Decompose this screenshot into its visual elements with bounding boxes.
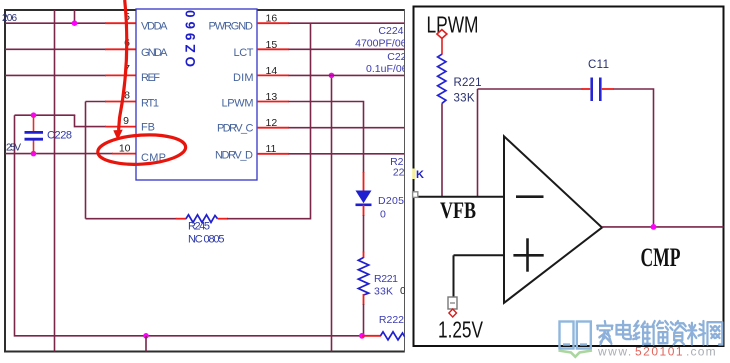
node C228 bottom dot (31, 151, 37, 157)
svg-text:C22: C22 (387, 51, 406, 63)
wire NDRV_D to border (289, 153, 405, 155)
pin 6 red stub (105, 48, 136, 50)
svg-text:206: 206 (2, 13, 17, 24)
svg-text:LPWM: LPWM (427, 12, 479, 38)
wire CMP output (602, 226, 724, 228)
wire FB upper branch horizontal (15, 114, 76, 116)
svg-text:33K: 33K (374, 286, 393, 298)
pin 16 red stub (257, 22, 289, 24)
resistor R222 zigzag (381, 332, 405, 340)
wire FB pin9 elbow (75, 115, 107, 126)
svg-text:LCT: LCT (234, 47, 254, 59)
pin 5 red stub (105, 22, 136, 24)
wire RT1 pin8 horizontal (86, 101, 107, 103)
diode D205 anode stub (363, 172, 365, 191)
wire VDDA pin5 horizontal (5, 22, 106, 24)
svg-text:R222: R222 (379, 314, 404, 326)
wire C11 to output elbow (614, 89, 654, 227)
svg-text:4700PF/06: 4700PF/06 (355, 38, 407, 50)
wire CMP pin10 horizontal (5, 153, 113, 155)
watermark chinese text jia (597, 321, 612, 344)
wire R221 to rail (363, 304, 365, 336)
resistor R221 right panel zigzag (438, 54, 446, 103)
svg-text:DIM: DIM (233, 72, 254, 84)
svg-text:22: 22 (393, 167, 405, 179)
svg-text:PWRGND: PWRGND (209, 21, 254, 33)
svg-text:0: 0 (380, 209, 386, 221)
watermark chinese text liao (688, 321, 705, 344)
svg-text:LPWM: LPWM (222, 98, 254, 110)
wire diode to R221 (363, 215, 365, 253)
wire GNDA pin6 horizontal (5, 48, 106, 50)
capacitor C228 legs (33, 115, 35, 153)
svg-text:VFB: VFB (440, 198, 476, 223)
watermark chinese text xiu (652, 321, 668, 344)
wire R245 row (86, 218, 177, 220)
resistor R245 right stub (218, 218, 229, 220)
svg-text:33K: 33K (454, 93, 475, 105)
svg-text:PDRV_C: PDRV_C (217, 123, 254, 135)
svg-text:R245: R245 (188, 221, 210, 233)
wire stub top to VDDA node (74, 10, 76, 23)
svg-text:GNDA: GNDA (141, 47, 168, 59)
svg-text:VDDA: VDDA (141, 21, 168, 33)
svg-text:10: 10 (119, 143, 131, 155)
port 1.25V red diamond (449, 309, 457, 317)
op-amp plus symbol (513, 238, 543, 271)
wire rail stub down (145, 336, 147, 352)
pin 14 red stub (257, 74, 289, 76)
port 1.25V box (448, 297, 457, 309)
watermark book base green (559, 351, 593, 357)
svg-text:D205: D205 (378, 195, 404, 207)
svg-text:520101: 520101 (635, 345, 684, 359)
wire RT1 vertical branch (85, 102, 87, 219)
wire LPWM to R221 (441, 38, 443, 54)
pin 13 red stub (257, 101, 289, 103)
annotation red arrow curve (119, 0, 127, 130)
pin 15 red stub (257, 48, 289, 50)
node CMP output dot (651, 224, 657, 230)
node C228 top dot (31, 112, 37, 118)
node VDDA junction dot (72, 20, 78, 26)
wire DIM vertical x331 (331, 75, 333, 351)
wire 1.25V vertical (453, 255, 455, 297)
pin 11 red stub (257, 153, 289, 155)
svg-text:C224: C224 (378, 25, 403, 37)
op-amp U1 triangle (504, 136, 602, 303)
wire LPWM elbow down (289, 102, 364, 174)
svg-text:1.25V: 1.25V (438, 317, 483, 343)
pin 12 red stub (257, 127, 289, 129)
watermark chinese text zi (670, 321, 686, 344)
label K (412, 169, 415, 180)
diode D205 body (356, 191, 372, 204)
annotation red ellipse (97, 132, 187, 166)
left panel frame (5, 10, 405, 352)
node DIM dot (329, 73, 335, 79)
wire LCT to border (289, 48, 405, 50)
svg-text:NC 0805: NC 0805 (188, 234, 225, 246)
svg-text:NDRV_D: NDRV_D (215, 150, 253, 162)
diode D205 cathode stub (363, 205, 365, 216)
svg-text:FB: FB (141, 122, 155, 134)
resistor R222 left stub (362, 335, 381, 337)
capacitor C11 plates (592, 78, 601, 102)
capacitor C11 right stub (602, 88, 614, 90)
op-amp minus symbol (516, 195, 544, 198)
wire long vertical x54 (54, 10, 56, 352)
capacitor C228 plates (25, 132, 44, 139)
wire C11 junction vertical (477, 89, 479, 197)
IC U1 OZ960 body (136, 9, 257, 180)
pin 8 red stub (105, 101, 136, 103)
wire PWRGND to border (289, 22, 405, 24)
resistor R245 left stub (176, 218, 187, 220)
svg-text:R221: R221 (374, 273, 398, 285)
svg-text:C11: C11 (588, 59, 609, 71)
svg-text:0: 0 (400, 285, 406, 297)
capacitor C11 left stub (582, 88, 591, 90)
wire R221 down to VFB line (441, 103, 443, 196)
svg-text:R221: R221 (454, 77, 482, 89)
op-amp minus input wire (417, 196, 505, 198)
svg-text:CMP: CMP (641, 242, 681, 272)
svg-text:K: K (416, 169, 424, 181)
svg-text:9: 9 (123, 115, 129, 127)
wire C11 horizontal left (478, 88, 583, 90)
svg-text:25V: 25V (6, 143, 21, 154)
wire DIM to border (289, 74, 405, 76)
svg-text:0.1uF/06: 0.1uF/06 (366, 63, 408, 75)
wire PDRV_C to border (289, 127, 405, 129)
pin 10 red stub (112, 153, 136, 155)
annotation red arrowhead (113, 130, 122, 141)
resistor R245 zigzag (186, 215, 218, 223)
wire R245 to right bus (227, 23, 311, 219)
svg-text:RT1: RT1 (141, 98, 159, 110)
node rail R222 dot (359, 333, 365, 339)
port pad square (413, 192, 418, 198)
wire left L-shape to bottom rail (15, 115, 362, 336)
resistor R221 top stub (363, 252, 365, 259)
pin 7 red stub (105, 74, 136, 76)
watermark chinese text wang (707, 322, 722, 344)
watermark chinese text dian (617, 321, 631, 339)
right panel frame (414, 7, 724, 347)
wire REF pin7 horizontal (5, 74, 106, 76)
svg-text:REF: REF (141, 72, 160, 84)
svg-text:.com: .com (686, 345, 717, 359)
watermark chinese text wei (633, 321, 650, 344)
svg-text:C228: C228 (47, 130, 72, 142)
op-amp plus input wire (454, 254, 505, 256)
resistor R221 zigzag (358, 258, 368, 296)
pin 9 red stub (105, 126, 136, 128)
resistor R221 bottom stub (363, 294, 365, 305)
diode D205 cathode bar (356, 204, 372, 207)
node rail stub dot (143, 333, 149, 339)
watermark logo book icon (560, 322, 591, 349)
port LPWM red diamond (437, 30, 447, 39)
svg-text:www.: www. (597, 345, 633, 359)
